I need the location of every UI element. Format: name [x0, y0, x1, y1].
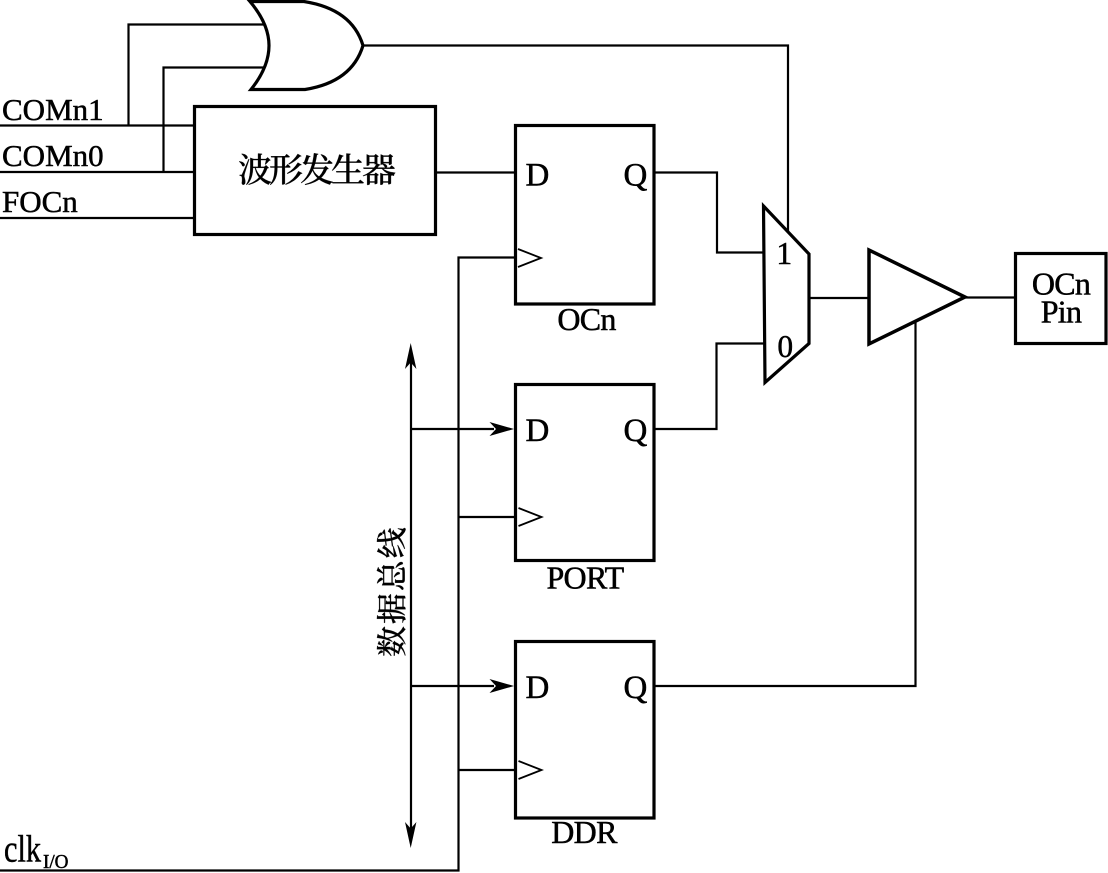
svg-text:Pin: Pin: [1041, 294, 1082, 330]
svg-text:Q: Q: [624, 158, 648, 194]
wire clk I/O trunk: [0, 258, 517, 871]
wire waveform generator output to OCn D input: [436, 171, 517, 173]
wire OR gate output to mux select: [363, 46, 788, 234]
flip-flop PORT clock triangle: [519, 508, 542, 526]
svg-text:I/O: I/O: [43, 851, 69, 873]
data bus top arrowhead: [405, 343, 416, 369]
flip-flop OCn box: [516, 126, 655, 305]
wire PORT Q output to mux input 0: [654, 344, 765, 430]
wire DDR Q output to buffer enable: [654, 320, 916, 686]
wire COMn0 input line: [0, 171, 195, 173]
svg-text:OCn: OCn: [557, 301, 616, 337]
waveform generator label 波形发生器: [239, 153, 395, 185]
svg-text:clk: clk: [4, 829, 41, 871]
wire mux output to buffer input: [809, 297, 871, 299]
flip-flop DDR clock triangle: [519, 761, 542, 779]
svg-text:1: 1: [776, 236, 792, 271]
svg-text:COMn1: COMn1: [2, 92, 104, 127]
waveform generator box: [195, 107, 436, 235]
wire COMn1 branch up to OR gate top input: [129, 25, 267, 126]
flip-flop DDR box: [516, 642, 655, 819]
data bus label 数据总线: [377, 528, 406, 656]
data bus bottom arrowhead: [405, 822, 416, 848]
svg-text:Q: Q: [624, 670, 648, 706]
wire COMn1 input line: [0, 124, 195, 126]
wire data bus to DDR D input: [411, 685, 494, 687]
svg-text:0: 0: [777, 329, 793, 364]
svg-text:D: D: [526, 158, 550, 194]
svg-text:FOCn: FOCn: [2, 184, 78, 219]
svg-text:Q: Q: [624, 413, 648, 449]
svg-text:COMn0: COMn0: [2, 138, 104, 173]
wire clk branch to DDR clock: [459, 769, 518, 771]
wire buffer output to OCn Pin: [963, 296, 1017, 298]
wire data bus to PORT D input: [411, 428, 494, 430]
OCn Pin box: [1016, 254, 1107, 344]
svg-text:PORT: PORT: [546, 560, 624, 596]
wire clk branch to PORT clock: [459, 516, 518, 518]
arrowhead into PORT D: [490, 422, 515, 436]
svg-text:D: D: [526, 670, 550, 706]
data bus vertical double-arrow: [410, 362, 412, 830]
wire COMn0 branch up to OR gate bottom input: [164, 68, 267, 173]
flip-flop OCn clock triangle: [518, 249, 541, 267]
arrowhead into DDR D: [490, 679, 515, 693]
wire OCn Q output to mux input 1: [654, 173, 765, 253]
or-gate (COMn1 + COMn0): [250, 2, 363, 90]
mux (output compare pin multiplexer): [764, 206, 810, 383]
svg-text:DDR: DDR: [551, 814, 618, 850]
tri-state output buffer: [869, 250, 965, 344]
flip-flop PORT box: [516, 385, 655, 561]
wire FOCn input line: [0, 217, 195, 219]
svg-text:D: D: [526, 413, 550, 449]
